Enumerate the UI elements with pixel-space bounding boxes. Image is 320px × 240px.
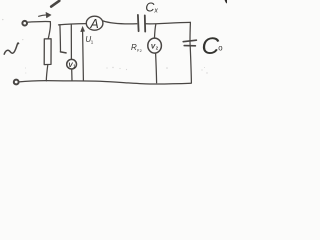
svg-text:x: x <box>153 8 158 15</box>
svg-text:A: A <box>89 17 98 31</box>
svg-text:2: 2 <box>140 49 142 53</box>
svg-text:C: C <box>202 33 220 60</box>
svg-text:o: o <box>218 44 223 53</box>
